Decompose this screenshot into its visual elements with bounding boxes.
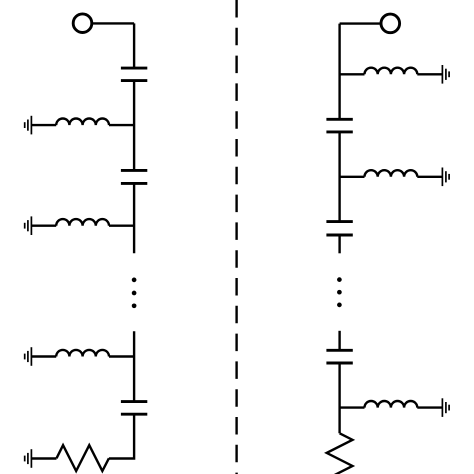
capacitor C4 xyxy=(326,119,352,132)
wire xyxy=(133,81,135,171)
inductor L3 xyxy=(56,350,109,357)
ground xyxy=(25,116,32,135)
wire xyxy=(338,24,340,120)
wire xyxy=(417,73,442,75)
wire xyxy=(340,73,365,75)
wire xyxy=(417,176,442,178)
ground xyxy=(25,449,32,468)
wire xyxy=(133,331,135,401)
port terminal P1 xyxy=(73,14,92,33)
wire xyxy=(340,176,365,178)
wire xyxy=(32,224,56,226)
wire xyxy=(338,331,340,351)
wire xyxy=(338,235,340,253)
wire xyxy=(133,23,135,68)
continuation dots xyxy=(132,278,137,309)
ground xyxy=(442,65,449,84)
ground xyxy=(25,216,32,235)
wire xyxy=(338,132,340,222)
wire xyxy=(109,124,134,126)
wire xyxy=(417,406,442,408)
wire xyxy=(109,224,134,226)
wire xyxy=(340,406,365,408)
symmetry axis (dashed) xyxy=(235,0,237,474)
resistor R2 xyxy=(327,433,353,474)
capacitor C1 xyxy=(121,68,147,81)
inductor L5 xyxy=(365,170,418,177)
wire xyxy=(32,355,56,357)
wire xyxy=(109,355,134,357)
capacitor C3 xyxy=(121,402,147,415)
wire xyxy=(109,414,134,458)
wire xyxy=(338,363,340,433)
ground xyxy=(442,398,449,417)
inductor L1 xyxy=(56,119,109,126)
capacitor C2 xyxy=(121,170,147,183)
continuation dots xyxy=(337,277,342,307)
capacitor C5 xyxy=(326,222,352,235)
wire xyxy=(340,22,382,24)
ground xyxy=(442,168,449,187)
inductor L6 xyxy=(365,401,418,408)
wire xyxy=(133,183,135,253)
port terminal P2 xyxy=(381,14,400,33)
inductor L2 xyxy=(56,219,109,226)
ground xyxy=(25,347,32,366)
capacitor C6 xyxy=(326,350,352,363)
wire xyxy=(32,457,57,459)
resistor R1 xyxy=(57,445,109,471)
wire xyxy=(92,22,134,24)
wire xyxy=(32,124,56,126)
inductor L4 xyxy=(365,68,418,75)
